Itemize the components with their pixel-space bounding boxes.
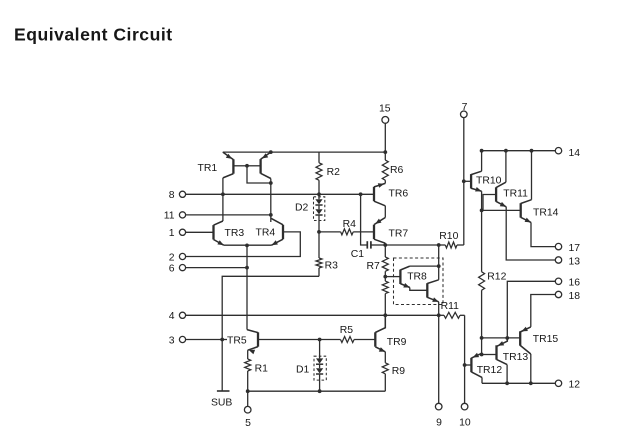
wire TR1 right collector column	[270, 179, 272, 223]
wire pin 10 column	[464, 315, 466, 403]
svg-text:17: 17	[569, 243, 581, 254]
node D1 top / bias line	[318, 338, 322, 342]
wire top rail (TR1 emitters to R6)	[223, 151, 385, 153]
pin 10 terminal	[459, 403, 471, 428]
label C1	[351, 249, 365, 260]
transistor TR1 (left half)	[223, 152, 247, 178]
label TR10	[476, 175, 502, 186]
svg-text:R2: R2	[327, 167, 341, 178]
pin 12 terminal	[555, 380, 580, 391]
svg-text:TR11: TR11	[503, 189, 528, 200]
wire node B to node C	[481, 338, 483, 355]
wire rail pin14	[482, 150, 556, 152]
resistor R11	[439, 312, 465, 318]
node R1 bottom / pin5 / gnd rail	[246, 389, 250, 393]
wire pin 18 to TR15 emitter	[531, 295, 556, 327]
svg-text:TR4: TR4	[256, 227, 276, 238]
svg-text:15: 15	[379, 104, 391, 115]
svg-text:SUB: SUB	[211, 397, 232, 408]
wire TR8 interstage	[410, 288, 428, 291]
svg-text:TR3: TR3	[225, 228, 245, 239]
pin 18 terminal	[555, 291, 580, 302]
pin 9 terminal	[435, 403, 442, 428]
wire node A to TR14 base	[482, 209, 521, 211]
node rail left corner / TR10 collector	[480, 149, 484, 153]
resistor R3	[316, 232, 322, 276]
node TR12 base / pin10 column	[463, 363, 467, 367]
label R7	[367, 261, 381, 272]
resistor R7 (upper section)	[382, 245, 388, 271]
svg-text:8: 8	[169, 190, 175, 201]
wire TR8 emitter column	[438, 302, 440, 316]
diode D1 (dual, in dashed box)	[314, 340, 326, 392]
node R11 left / pin9 / pin4 line	[437, 313, 441, 317]
node pin11 / TR4 collector	[269, 213, 273, 217]
wire TR6 base to C1	[361, 194, 367, 245]
node rail / TR11 collector	[504, 149, 508, 153]
TR8 dashed box	[394, 258, 444, 305]
resistor R4	[319, 229, 374, 235]
svg-text:TR12: TR12	[477, 365, 503, 376]
transistor TR9	[375, 315, 385, 352]
node rail / TR15 collector	[529, 381, 533, 385]
label R10	[439, 231, 458, 242]
svg-text:Equivalent Circuit: Equivalent Circuit	[14, 24, 173, 44]
pin 6 terminal	[169, 263, 247, 274]
svg-text:C1: C1	[351, 249, 365, 260]
capacitor C1	[367, 241, 385, 248]
diode D2 (dual, in dashed box)	[314, 197, 325, 232]
node pin16 / TR13 emitter / TR15 base line	[505, 336, 509, 340]
svg-text:9: 9	[436, 418, 442, 429]
label TR5	[227, 336, 247, 347]
label TR8	[407, 271, 427, 282]
label D2	[295, 203, 309, 214]
wire node B line to TR15 base	[482, 337, 521, 339]
pin 17 terminal	[555, 243, 580, 254]
svg-text:18: 18	[569, 291, 581, 302]
node diff pair tail	[245, 244, 249, 248]
label TR9	[387, 337, 407, 348]
wire TR13 base lead	[482, 354, 497, 356]
label TR6	[389, 188, 409, 199]
wire TR7 node to R10	[385, 244, 438, 246]
svg-text:R11: R11	[441, 301, 460, 312]
SUB terminal	[211, 340, 232, 409]
svg-text:R12: R12	[487, 271, 506, 282]
resistor R7 (lower section)	[382, 271, 388, 315]
label R4	[343, 219, 357, 230]
label TR15	[533, 334, 559, 345]
pin 8 terminal	[169, 190, 223, 201]
svg-text:4: 4	[169, 311, 175, 322]
transistor TR13	[497, 338, 508, 383]
pin 13 terminal	[555, 256, 580, 267]
node TR1 common base	[245, 164, 249, 168]
svg-text:R5: R5	[340, 325, 354, 336]
transistor TR5	[247, 330, 258, 355]
wire pin 9 column	[438, 315, 440, 403]
svg-text:1: 1	[169, 228, 175, 239]
svg-text:R10: R10	[439, 231, 458, 242]
node TR7 collector / C1 / R7 / R10 line	[383, 243, 387, 247]
svg-text:TR15: TR15	[533, 334, 559, 345]
resistor R9	[382, 352, 388, 391]
svg-text:TR1: TR1	[198, 163, 218, 174]
svg-text:3: 3	[169, 335, 175, 346]
svg-text:12: 12	[569, 380, 581, 391]
svg-text:R9: R9	[392, 366, 406, 377]
wire bottom-right rail to pin 12	[482, 382, 555, 384]
pin 7 terminal	[461, 102, 468, 245]
node R2/D2 junction	[317, 192, 321, 196]
pin 2 terminal	[169, 252, 186, 263]
resistor R10	[439, 242, 464, 248]
transistor TR11	[496, 151, 506, 207]
transistor TR8 (second)	[427, 280, 438, 302]
svg-text:D1: D1	[296, 365, 310, 376]
pin 15 terminal	[379, 104, 391, 153]
node rail / TR14 collector	[530, 149, 534, 153]
node base tie / right collector	[269, 181, 273, 185]
svg-text:TR6: TR6	[389, 188, 409, 199]
svg-text:13: 13	[569, 256, 581, 267]
pin 1 terminal	[169, 228, 214, 239]
svg-text:R7: R7	[367, 261, 381, 272]
label R1	[255, 364, 269, 375]
svg-text:R4: R4	[343, 219, 357, 230]
wire bottom rail	[248, 390, 386, 392]
node R10 left / TR8 collectors	[437, 243, 441, 247]
transistor TR6	[374, 183, 385, 217]
node TR8 collectors junction	[437, 264, 441, 268]
svg-text:5: 5	[245, 418, 251, 429]
pin 11 terminal	[164, 211, 271, 222]
label TR14	[533, 207, 559, 218]
transistor TR8 (first)	[400, 266, 409, 287]
svg-text:6: 6	[169, 263, 175, 274]
wire TR11 base jog	[483, 195, 496, 211]
svg-text:10: 10	[459, 418, 471, 429]
pin 4 terminal	[169, 311, 439, 322]
svg-text:14: 14	[569, 148, 581, 159]
resistor R5	[320, 337, 376, 343]
label R2	[327, 167, 341, 178]
label TR3	[225, 228, 245, 239]
wire TR8 collector column	[438, 245, 440, 280]
node C (TR12 emitter / TR13 base)	[480, 353, 484, 357]
node D1 bottom / gnd rail	[318, 389, 322, 393]
label D1	[296, 365, 310, 376]
node R7 midpoint / TR8 base	[383, 275, 387, 279]
label TR7	[389, 228, 409, 239]
node B (R12 bottom)	[480, 336, 484, 340]
svg-text:16: 16	[569, 278, 581, 289]
svg-text:TR8: TR8	[407, 271, 427, 282]
transistor TR4	[271, 218, 283, 245]
node R7 bottom / TR9 collector / pin4 line	[383, 313, 387, 317]
wire tail column	[246, 245, 248, 329]
label TR13	[503, 352, 529, 363]
wire TR1 base-collector tie	[247, 166, 271, 183]
transistor TR7	[374, 218, 385, 246]
svg-text:TR10: TR10	[476, 175, 502, 186]
wire TR1 left collector column	[222, 178, 224, 221]
transistor TR14	[521, 151, 532, 223]
node D2 / R4 / R3 junction	[317, 230, 321, 234]
label TR1	[198, 163, 218, 174]
transistor TR12	[465, 353, 482, 384]
svg-text:R6: R6	[390, 165, 404, 176]
node top rail / R6 / pin15	[383, 150, 387, 154]
svg-text:11: 11	[164, 211, 175, 222]
node top rail / TR1 right emitter	[269, 150, 273, 154]
wire TR14 emitter to pin 17	[531, 222, 555, 246]
wire TR8 collector link	[410, 265, 439, 267]
node pin3 / TR5 base / SUB	[220, 338, 224, 342]
node TR6 base / C1 junction	[359, 192, 363, 196]
transistor TR10	[464, 151, 482, 211]
label TR4	[256, 227, 276, 238]
pin 3 terminal	[169, 335, 222, 346]
wire pin8 line to TR6 base	[223, 193, 374, 195]
pin 5 terminal	[244, 391, 251, 429]
wire pin2 to TR4 base	[186, 232, 301, 257]
label TR11	[503, 189, 528, 200]
svg-text:R3: R3	[325, 260, 339, 271]
label R9	[392, 366, 406, 377]
svg-text:TR13: TR13	[503, 352, 529, 363]
resistor R6	[382, 152, 388, 183]
label R11	[441, 301, 460, 312]
label R6	[390, 165, 404, 176]
wire TR11 emitter to pin 13	[506, 207, 555, 260]
node pin6 / tail	[245, 266, 249, 270]
node pin7 line / TR10 base	[462, 179, 466, 183]
svg-text:TR5: TR5	[227, 336, 247, 347]
pin 16 terminal	[555, 278, 580, 289]
label TR12	[477, 365, 503, 376]
wire R3 return to TR5 base	[222, 276, 319, 339]
transistor TR1 (right half)	[247, 152, 271, 178]
resistor R1	[245, 350, 251, 391]
transistor TR15	[520, 327, 531, 384]
svg-text:TR14: TR14	[533, 207, 559, 218]
wire TR8 base lead	[385, 276, 400, 278]
node A (TR10 emitter / R12 / bases)	[480, 209, 484, 213]
svg-text:D2: D2	[295, 203, 309, 214]
node rail / TR13 collector	[505, 381, 509, 385]
label R3	[325, 260, 339, 271]
label R5	[340, 325, 354, 336]
svg-text:TR7: TR7	[389, 228, 409, 239]
title text	[14, 24, 173, 44]
svg-text:TR9: TR9	[387, 337, 407, 348]
pin 14 terminal	[555, 148, 580, 159]
node pin8/TR1 collector junction	[221, 192, 225, 196]
resistor R2	[316, 152, 322, 197]
wire pin 16 to TR13 emitter node	[507, 281, 555, 338]
svg-text:2: 2	[169, 252, 175, 263]
label R12	[487, 271, 506, 282]
wire TR5 base to D1 node	[222, 339, 319, 341]
resistor R12	[479, 210, 485, 338]
transistor TR3	[214, 221, 224, 245]
wire TR3/TR4 emitter line	[224, 244, 272, 246]
svg-text:R1: R1	[255, 364, 269, 375]
